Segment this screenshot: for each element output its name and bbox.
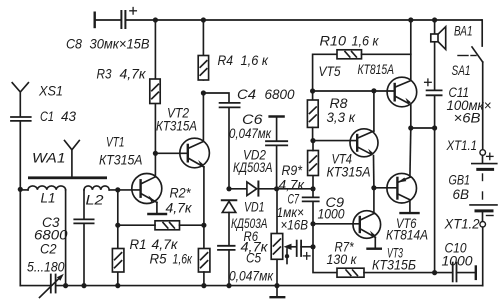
- svg-text:С6: С6: [242, 112, 263, 127]
- svg-text:R4: R4: [218, 53, 234, 68]
- label C8 value: [66, 37, 150, 52]
- svg-text:ВА1: ВА1: [454, 24, 473, 39]
- node R8/R9/VT4 base: [310, 138, 315, 143]
- svg-text:L2: L2: [86, 193, 105, 208]
- node R2/R5/VT2e: [201, 223, 206, 228]
- svg-text:КТ315А: КТ315А: [156, 119, 197, 134]
- wire C3 bottom to rail: [83, 223, 85, 285]
- svg-text:4,7к: 4,7к: [241, 240, 269, 255]
- switch SA1: [458, 20, 483, 150]
- loudspeaker BA1: [431, 20, 446, 90]
- svg-text:КТ315А: КТ315А: [327, 165, 371, 180]
- svg-text:GB1: GB1: [449, 173, 471, 188]
- wire VT2 emitter down: [201, 165, 204, 167]
- capacitor C4: [220, 103, 240, 108]
- transistor VT5: [387, 77, 417, 107]
- svg-text:КТ315А: КТ315А: [99, 153, 143, 168]
- resistor R7: [337, 268, 364, 277]
- inductor L2: [84, 186, 109, 190]
- wire C11 column down: [434, 95, 436, 272]
- svg-text:×16В: ×16В: [281, 218, 309, 233]
- resistor R2: [155, 221, 180, 230]
- svg-text:43: 43: [61, 109, 76, 124]
- svg-text:6800: 6800: [34, 228, 68, 243]
- svg-text:4,7к: 4,7к: [166, 201, 193, 216]
- capacitor C6: [266, 141, 287, 145]
- resistor R5: [198, 249, 210, 273]
- node VT4 collector / VT5 base wire: [371, 88, 376, 93]
- svg-text:4,7к: 4,7к: [120, 67, 147, 82]
- node C6 detector: [274, 186, 279, 191]
- svg-text:L1: L1: [41, 191, 56, 206]
- svg-text:5...180: 5...180: [27, 260, 65, 275]
- svg-text:SA1: SA1: [452, 63, 471, 78]
- wire VT5 collector to top rail: [410, 20, 412, 81]
- ground C6 top chassis bar: [270, 115, 284, 117]
- wire R2 right: [180, 224, 204, 226]
- svg-text:VT1: VT1: [106, 135, 125, 150]
- transistor VT6: [387, 173, 417, 203]
- svg-text:КТ814А: КТ814А: [386, 228, 428, 243]
- wire VD2 to node: [258, 188, 313, 190]
- node rail C5: [226, 283, 231, 288]
- capacitor C10: [453, 263, 476, 282]
- svg-text:30мк×15В: 30мк×15В: [90, 37, 150, 52]
- node top rail VT5: [408, 17, 413, 22]
- wire VT2 collector to C4: [203, 93, 229, 102]
- wire R2 left: [118, 224, 155, 226]
- svg-text:0,047мк: 0,047мк: [229, 269, 274, 284]
- svg-text:XS1: XS1: [38, 84, 63, 99]
- transistor VT2: [180, 138, 210, 168]
- wire L1 right end down to rail: [65, 190, 67, 286]
- node output VT5/VT6: [408, 125, 413, 130]
- wire VD1 to C5: [228, 212, 230, 245]
- diode VD1: [222, 200, 237, 212]
- node VT3 base: [310, 221, 315, 226]
- wire R7 column: [313, 247, 337, 273]
- wire C5 to rail: [228, 250, 230, 286]
- ground rail chassis symbol: [271, 286, 285, 298]
- wire VT5 base line: [313, 90, 395, 92]
- wire C9 column: [312, 189, 314, 197]
- svg-text:С1: С1: [40, 109, 54, 124]
- svg-text:6В: 6В: [453, 187, 470, 202]
- wire VT1 collector column: [154, 104, 156, 177]
- svg-text:КТ315Б: КТ315Б: [372, 257, 416, 272]
- wire detector line: [229, 188, 247, 190]
- svg-text:С4: С4: [237, 87, 256, 102]
- transistor VT4: [350, 129, 378, 157]
- antenna XS1: [12, 83, 28, 116]
- svg-text:С2: С2: [40, 242, 57, 257]
- wire R1 column: [117, 190, 119, 249]
- ground VT6 collector: [401, 212, 419, 214]
- wire R9 top to VT4 base node: [312, 141, 314, 151]
- svg-text:VD1: VD1: [244, 200, 265, 215]
- wire VT4 base: [313, 140, 357, 142]
- capacitor C11: [425, 79, 442, 95]
- wire C6 to detector line: [276, 145, 278, 188]
- svg-text:R10: R10: [320, 34, 347, 49]
- wire L2 left lead down: [83, 190, 85, 219]
- resistor R1: [112, 249, 124, 273]
- wire C7 right to node: [301, 246, 313, 248]
- wire C9 to VT3 base node: [312, 201, 314, 246]
- node rail R5: [201, 283, 206, 288]
- capacitor C9: [303, 197, 319, 201]
- resistor R8: [307, 91, 318, 141]
- wire R7 right to C10 node: [364, 272, 452, 274]
- svg-text:6800: 6800: [265, 87, 295, 102]
- node L1 left junction: [18, 187, 23, 192]
- svg-text:1,6 к: 1,6 к: [352, 34, 380, 49]
- svg-text:1,6к: 1,6к: [173, 252, 193, 267]
- potentiometer R6 wiper arrow: [284, 244, 297, 264]
- svg-text:R2*: R2*: [170, 186, 192, 201]
- terminal XT1.2: [480, 222, 486, 228]
- node top rail C11 column: [432, 17, 437, 22]
- capacitor C8: [121, 8, 136, 29]
- svg-text:3,3 к: 3,3 к: [327, 110, 356, 125]
- node top rail R3: [153, 17, 158, 22]
- ground VT1 emitter: [148, 213, 166, 215]
- svg-text:4,7к: 4,7к: [279, 178, 305, 193]
- diode VD2: [247, 182, 259, 196]
- capacitor C7: [297, 241, 310, 260]
- svg-text:1000: 1000: [318, 207, 345, 222]
- variable capacitor C2: [40, 274, 64, 298]
- svg-text:КТ815А: КТ815А: [358, 62, 395, 77]
- node VT1 base / R1: [115, 187, 120, 192]
- terminal XT1.1: [480, 150, 486, 156]
- svg-text:R8: R8: [330, 96, 349, 111]
- transistor VT3: [353, 211, 381, 239]
- svg-text:R5: R5: [150, 252, 167, 267]
- node VT1 collector to VT2 base: [153, 151, 158, 156]
- svg-text:R9*: R9*: [282, 163, 303, 178]
- node VT6 base: [371, 185, 376, 190]
- wire VT5 emitter down to output node: [410, 105, 412, 128]
- ferrite rod core: [28, 176, 107, 179]
- svg-text:ХТ1.2: ХТ1.2: [444, 217, 480, 232]
- antenna WA1: [65, 141, 80, 177]
- wire VT1 collector to VT2 base: [155, 152, 187, 154]
- svg-text:1,6 к: 1,6 к: [241, 53, 269, 68]
- node rail R1: [115, 283, 120, 288]
- node R9 bottom: [310, 186, 315, 191]
- wire VT6 emitter up to output node: [409, 128, 412, 177]
- svg-text:VT5: VT5: [319, 64, 341, 79]
- wire bottom rail: [20, 285, 50, 287]
- terminal T-bar C10 right: [475, 267, 477, 279]
- capacitor C1: [11, 117, 31, 121]
- resistor R10: [313, 50, 411, 91]
- svg-text:R1: R1: [130, 237, 147, 252]
- wire top rail: [96, 19, 121, 21]
- wire XT1.2 down to rail: [482, 227, 484, 286]
- svg-text:130 к: 130 к: [327, 252, 358, 267]
- svg-text:ХТ1.1: ХТ1.1: [446, 138, 477, 153]
- inductor L1: [20, 186, 65, 190]
- wire R5 top lead: [203, 225, 205, 248]
- transistor VT1: [132, 174, 162, 204]
- node C11 column at output: [432, 125, 437, 130]
- terminal T-bar left end of top rail: [93, 13, 95, 27]
- wire R5 bottom: [203, 272, 205, 286]
- node rail R6: [274, 283, 279, 288]
- wire C4 down to detector node: [228, 107, 230, 188]
- node R7/C10/C11 column: [432, 270, 437, 275]
- node rail C3: [81, 283, 86, 288]
- node R10/R8: [310, 88, 315, 93]
- wire VT1 emitter to chassis: [154, 201, 157, 203]
- labels C3 6800 C2 5...180: [27, 215, 68, 275]
- wire output node to C11 column: [411, 127, 435, 129]
- wire left column: [19, 121, 21, 286]
- node top rail R4: [201, 17, 206, 22]
- wire VT6 base: [374, 187, 398, 189]
- svg-text:WA1: WA1: [32, 151, 66, 166]
- wire VT3 emitter to chassis: [372, 236, 375, 238]
- wire C6 stem: [276, 117, 278, 142]
- svg-text:R3: R3: [97, 67, 112, 82]
- svg-text:0,047мк: 0,047мк: [229, 126, 272, 141]
- capacitor C3: [74, 219, 93, 223]
- wire VT3 base: [313, 223, 360, 225]
- battery GB1: [470, 155, 497, 221]
- wire VT4 collector up: [373, 91, 375, 131]
- plus sign XT1.1: [487, 153, 493, 159]
- wire VT2 collector column / R4: [202, 93, 204, 142]
- resistor R9: [308, 151, 319, 189]
- wire VT4 emitter down: [373, 156, 375, 188]
- svg-text:×6В: ×6В: [454, 111, 481, 126]
- svg-text:4,7к: 4,7к: [152, 237, 179, 252]
- svg-text:КД503А: КД503А: [233, 160, 273, 175]
- resistor R4: [198, 56, 208, 81]
- node rail L1: [63, 283, 68, 288]
- node VT2 collector / C4: [201, 90, 206, 95]
- wire VT3 collector up: [373, 188, 375, 214]
- node R1/R2: [115, 223, 120, 228]
- node detector: [226, 186, 231, 191]
- wire L2 right to VT1 base: [109, 189, 140, 191]
- node C7/R7: [310, 244, 315, 249]
- resistor R3: [150, 79, 160, 104]
- svg-text:1000: 1000: [442, 254, 473, 269]
- minus sign XT1.2: [487, 215, 494, 217]
- wire VT6 collector down: [409, 200, 411, 213]
- capacitor C5: [218, 246, 235, 250]
- svg-text:С8: С8: [66, 37, 82, 52]
- ground VT3 emitter: [368, 247, 381, 249]
- potentiometer R6: [271, 189, 283, 286]
